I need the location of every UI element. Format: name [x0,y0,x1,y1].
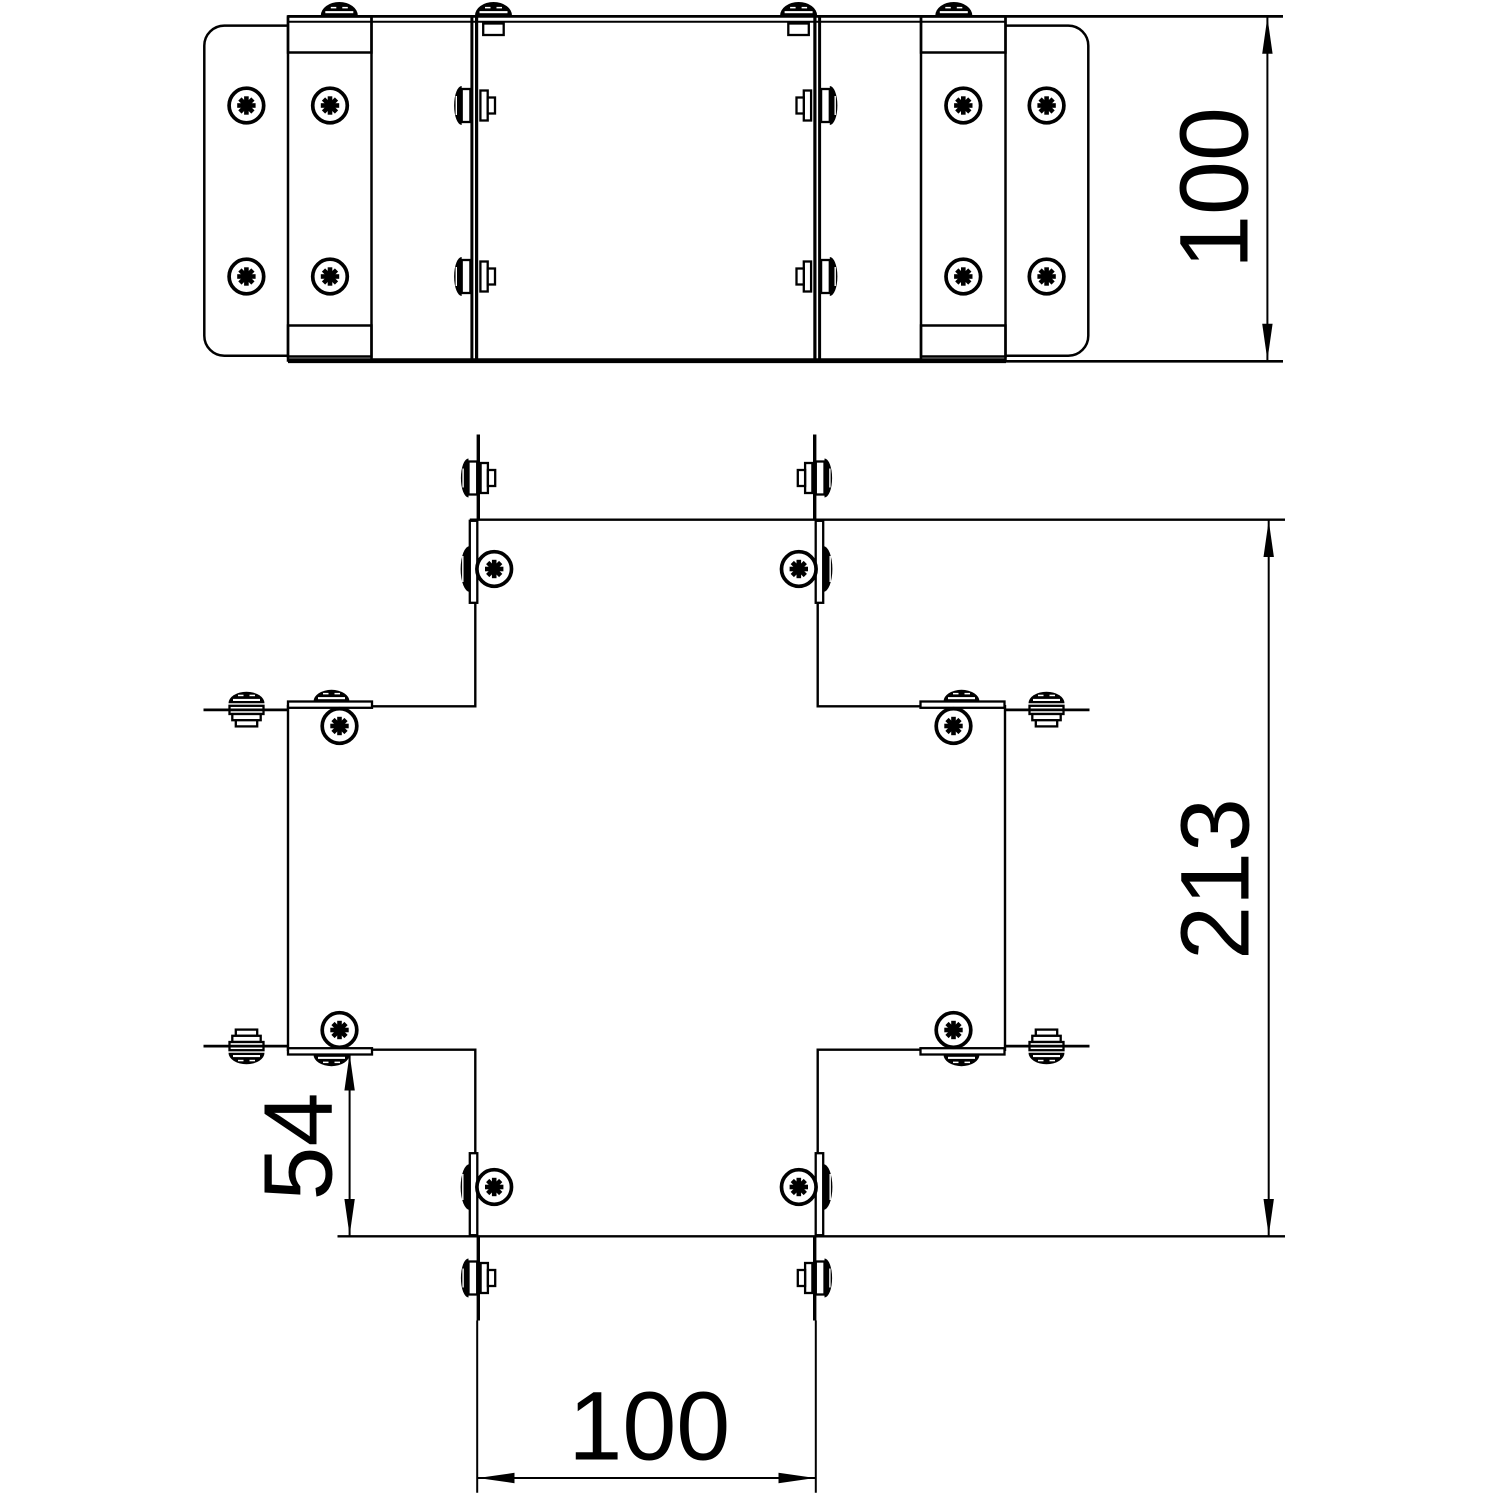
side screw lower on right wall (top view) [821,260,830,293]
pan-head screw on tab top-left (top view) [321,2,358,16]
bottom arm left wall / extension line 100 (bottom view) [477,1236,480,1320]
coupler plate bottom arm left (bottom view) [470,1153,478,1235]
dimension line 100 vertical (top view) [1266,16,1268,360]
left arm top edge (bottom view) [372,705,477,707]
cap screw left arm bottom (bottom view) [236,1030,257,1036]
side screw top-arm right wall (bottom view) [816,462,825,495]
cap screw right arm bottom (bottom view) [1036,1030,1057,1036]
cap line right arm bottom (bottom view) [1005,1045,1090,1048]
bottom arm right edge (bottom view) [817,1049,819,1155]
pozidriv screw A4 on left plate (top view) [313,259,348,294]
coupler plate left edge lines (top view) [287,16,290,361]
svg-text:54: 54 [243,1093,352,1201]
top arm right wall (bottom view) [813,435,816,520]
cover top edge / extension line (bottom view) [470,519,1285,521]
coupler tab bottom-right (top view) [921,326,1006,357]
dimension line 213 (bottom view) [1268,520,1270,1237]
cover bottom edge / extension line (bottom view) [338,1235,1286,1237]
screw head on left-arm top plate (bottom view) [314,690,350,702]
body top edge line (top view) [288,15,1283,18]
right arm top edge (bottom view) [817,705,922,707]
pozidriv screw B7 bottom arm left (bottom view) [477,1170,512,1205]
left arm end edge (bottom view) [287,705,289,1051]
pozidriv screw B3 left arm top (bottom view) [322,709,357,744]
coupler plate bottom arm right (bottom view) [816,1153,824,1235]
pozidriv screw B1 top arm left (bottom view) [477,552,512,587]
coupler plate left arm bottom (bottom view) [288,1048,372,1054]
screw head on bottom-arm right plate (bottom view) [823,1164,832,1210]
end cap left (top view) [204,26,288,356]
top arm right edge (bottom view) [817,602,819,708]
side screw bottom-arm right wall (bottom view) [816,1262,825,1295]
body top inner fold line (top view) [288,21,1006,23]
pozidriv screw B5 left arm bottom (bottom view) [322,1013,357,1048]
coupler plate left arm top (bottom view) [288,702,372,708]
coupler tab bottom-left (top view) [288,326,372,357]
top arm left wall (bottom view) [477,435,480,520]
pozidriv screw B6 right arm bottom (bottom view) [936,1013,971,1048]
screw head on top-arm right plate (bottom view) [823,546,832,592]
end cap right (top view) [1006,26,1089,356]
coupler plate top arm right (bottom view) [816,521,824,603]
bottom arm left edge (bottom view) [474,1049,476,1155]
dimension line 54 (bottom view) [349,1055,351,1236]
pan-head screw with nut, top of right wall (top view) [780,2,817,16]
coupler tab top-right (top view) [921,16,1006,52]
side screw upper on right wall (top view) [821,89,830,122]
svg-text:100: 100 [568,1372,730,1481]
cap line left arm top (bottom view) [204,709,289,712]
side screw top-arm left wall (bottom view) [469,462,478,495]
coupler plate right arm bottom (bottom view) [921,1048,1005,1054]
coupler tab top-left (top view) [288,16,372,52]
bottom arm right wall / extension line 100 (bottom view) [813,1236,816,1320]
coupler plate top arm left (bottom view) [470,521,478,603]
coupler plate right arm top (bottom view) [921,702,1005,708]
pan-head screw with nut, top of left wall (top view) [475,2,512,16]
body bottom edge band (top view) [288,358,1006,363]
body bottom edge extension (top view) [1006,360,1283,363]
screw head on top-arm left plate (bottom view) [461,546,470,592]
svg-text:213: 213 [1160,798,1269,960]
separating wall right (top view) [813,17,816,360]
side screw lower on left wall (top view) [462,260,471,293]
right arm bottom edge (bottom view) [817,1048,922,1050]
pozidriv screw A2 on left cap (top view) [229,259,264,294]
pozidriv screw B4 right arm top (bottom view) [936,709,971,744]
pozidriv screw A7 on right cap (top view) [1029,88,1064,123]
pozidriv screw A3 on left plate (top view) [313,88,348,123]
pan-head screw on tab top-right (top view) [935,2,972,16]
top arm left edge (bottom view) [474,602,476,708]
side screw upper on left wall (top view) [462,89,471,122]
screw head on right-arm bottom plate (bottom view) [944,1055,980,1067]
cap screw right arm top (bottom view) [1029,692,1065,704]
pozidriv screw A1 on left cap (top view) [229,88,264,123]
separating wall left (top view) [470,17,473,360]
screw head on right-arm top plate (bottom view) [944,690,980,702]
left arm bottom edge (bottom view) [372,1048,477,1050]
cap line left arm bottom (bottom view) [204,1045,289,1048]
pozidriv screw A5 on right plate (top view) [946,88,981,123]
pozidriv screw A6 on right plate (top view) [946,259,981,294]
screw head on bottom-arm left plate (bottom view) [461,1164,470,1210]
coupler plate right edge lines (top view) [920,16,923,361]
pozidriv screw A8 on right cap (top view) [1029,259,1064,294]
screw head on left-arm bottom plate (bottom view) [314,1055,350,1067]
pozidriv screw B8 bottom arm right (bottom view) [782,1170,817,1205]
cap screw left arm top (bottom view) [229,692,265,704]
side screw bottom-arm left wall (bottom view) [469,1262,478,1295]
cap line right arm top (bottom view) [1005,709,1090,712]
right arm end edge (bottom view) [1004,705,1006,1051]
svg-text:100: 100 [1159,107,1268,269]
pozidriv screw B2 top arm right (bottom view) [782,552,817,587]
dimension line 100 bottom (bottom view) [477,1477,816,1479]
